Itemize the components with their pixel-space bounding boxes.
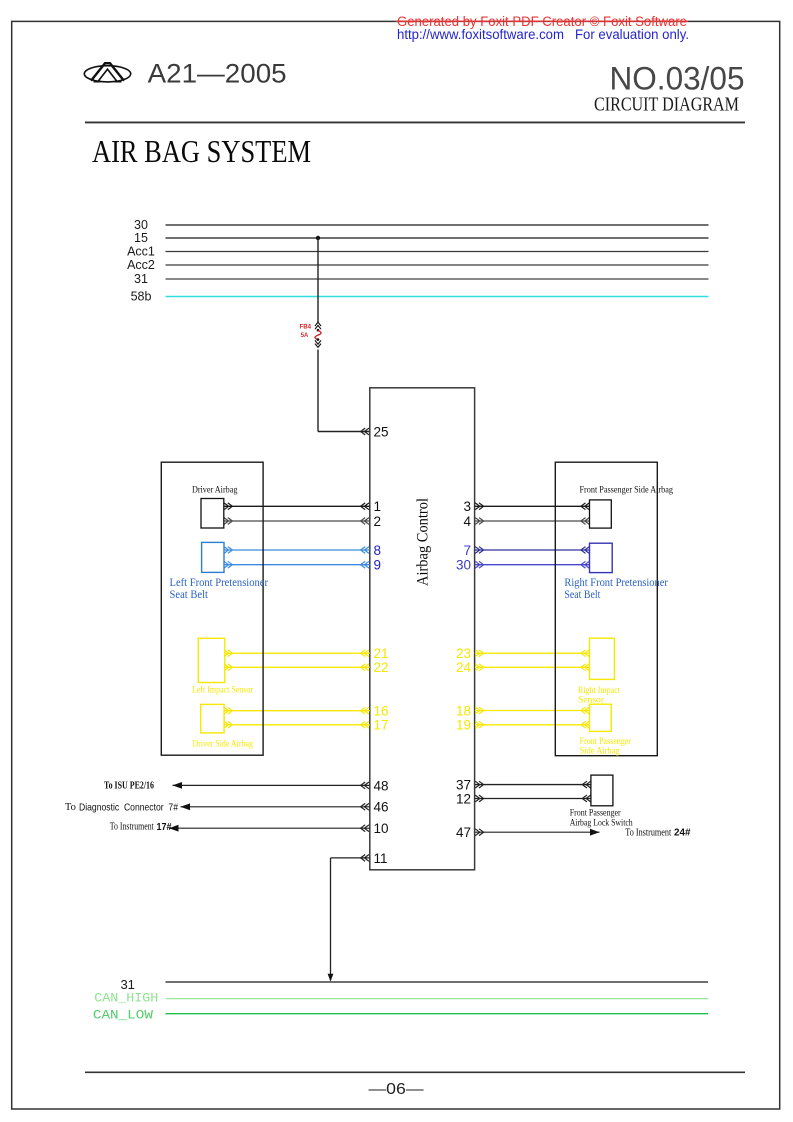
svg-text:Acc1: Acc1 xyxy=(127,245,155,259)
svg-text:25: 25 xyxy=(374,424,389,439)
svg-text:17: 17 xyxy=(374,718,389,733)
svg-text:30: 30 xyxy=(134,218,148,232)
svg-text:23: 23 xyxy=(456,646,471,661)
svg-text:FB4: FB4 xyxy=(300,324,312,331)
svg-text:Front Passenger: Front Passenger xyxy=(580,736,631,746)
svg-text:19: 19 xyxy=(456,718,471,733)
svg-text:11: 11 xyxy=(374,851,388,866)
svg-text:5A: 5A xyxy=(301,332,309,339)
svg-text:17#: 17# xyxy=(157,821,172,833)
svg-text:22: 22 xyxy=(374,660,389,675)
svg-text:Driver Side Airbag: Driver Side Airbag xyxy=(193,739,254,749)
svg-text:10: 10 xyxy=(374,821,389,836)
svg-text:To Instrument: To Instrument xyxy=(110,822,154,833)
svg-text:To: To xyxy=(65,802,76,813)
svg-text:2: 2 xyxy=(374,514,382,529)
svg-text:—06—: —06— xyxy=(369,1081,425,1098)
svg-text:47: 47 xyxy=(456,825,471,840)
svg-text:Seat Belt: Seat Belt xyxy=(170,587,209,601)
svg-text:58b: 58b xyxy=(131,290,152,304)
svg-text:Airbag Lock Switch: Airbag Lock Switch xyxy=(570,819,633,829)
svg-text:CAN_HIGH: CAN_HIGH xyxy=(94,990,158,1005)
svg-text:Left Impact Sensor: Left Impact Sensor xyxy=(192,685,253,695)
svg-text:37: 37 xyxy=(456,778,471,793)
svg-text:18: 18 xyxy=(456,703,471,718)
svg-text:AIR BAG SYSTEM: AIR BAG SYSTEM xyxy=(92,133,311,169)
svg-text:http://www.foxitsoftware.com: http://www.foxitsoftware.com For evaluat… xyxy=(397,27,689,42)
svg-text:7: 7 xyxy=(463,543,471,558)
svg-text:CAN_LOW: CAN_LOW xyxy=(93,1007,153,1022)
svg-text:12: 12 xyxy=(456,791,471,806)
svg-text:A21—2005: A21—2005 xyxy=(148,58,287,88)
svg-text:Right Impact: Right Impact xyxy=(578,685,620,695)
svg-text:31: 31 xyxy=(134,272,148,286)
svg-text:24: 24 xyxy=(456,660,472,675)
svg-text:3: 3 xyxy=(463,499,471,514)
svg-text:Side Airbag: Side Airbag xyxy=(580,746,620,756)
svg-text:30: 30 xyxy=(456,558,471,573)
svg-text:1: 1 xyxy=(374,499,382,514)
svg-text:NO.03/05: NO.03/05 xyxy=(610,60,745,96)
svg-text:46: 46 xyxy=(374,800,389,815)
svg-text:4: 4 xyxy=(463,514,471,529)
svg-text:Sensor: Sensor xyxy=(578,695,604,705)
svg-text:15: 15 xyxy=(134,231,148,245)
svg-text:48: 48 xyxy=(374,778,389,793)
svg-text:CIRCUIT DIAGRAM: CIRCUIT DIAGRAM xyxy=(594,95,739,116)
svg-text:Airbag Control: Airbag Control xyxy=(415,498,432,586)
svg-text:Front Passenger Side Airbag: Front Passenger Side Airbag xyxy=(580,486,674,496)
svg-text:Acc2: Acc2 xyxy=(127,258,155,272)
svg-text:21: 21 xyxy=(374,646,389,661)
svg-text:8: 8 xyxy=(374,543,382,558)
svg-text:Driver Airbag: Driver Airbag xyxy=(192,486,238,496)
svg-text:Front Passenger: Front Passenger xyxy=(570,809,622,819)
svg-text:To Instrument: To Instrument xyxy=(625,828,671,839)
svg-text:Diagnostic Connector 7#: Diagnostic Connector 7# xyxy=(79,801,178,813)
svg-text:Seat Belt: Seat Belt xyxy=(564,587,601,601)
svg-text:24#: 24# xyxy=(674,827,691,839)
svg-text:9: 9 xyxy=(374,558,382,573)
svg-text:To ISU PE2/16: To ISU PE2/16 xyxy=(104,780,154,791)
svg-text:16: 16 xyxy=(374,704,389,719)
